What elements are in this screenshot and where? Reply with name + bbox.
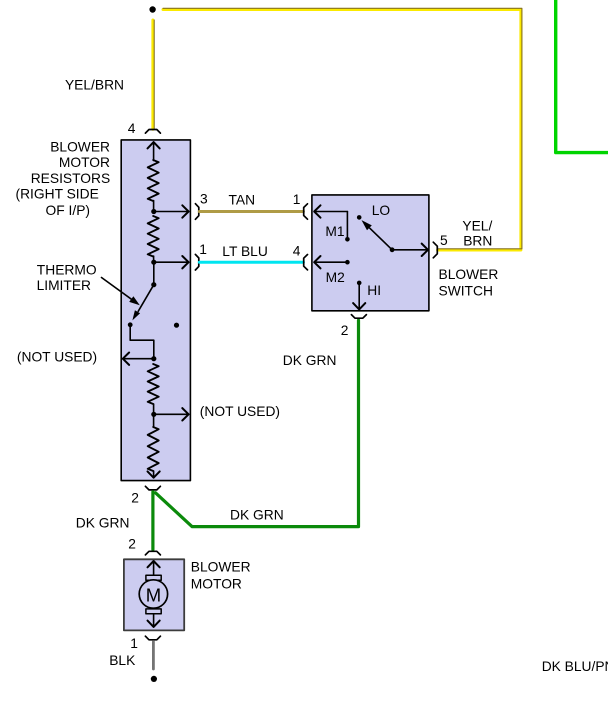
connector at switch pin 5 (433, 242, 437, 258)
svg-text:RESISTORS: RESISTORS (31, 171, 110, 186)
wire GRN (top right corner) (556, 0, 608, 153)
svg-text:4: 4 (128, 121, 136, 136)
wire TAN (199, 210, 303, 213)
svg-text:YEL/BRN: YEL/BRN (65, 78, 124, 93)
switch pin 4 arrow (M2 feed) (314, 261, 347, 263)
svg-text:LIMITER: LIMITER (37, 278, 91, 293)
LO contact dot (357, 215, 362, 220)
connector at motor pin 2 (145, 551, 160, 555)
svg-text:DK BLU/PNK: DK BLU/PNK (542, 659, 608, 674)
connector at resistor pin 2 (145, 486, 160, 490)
motor top terminal (brush) (146, 575, 161, 580)
wire inside block from pin 1 tap down to thermo limiter (153, 262, 155, 285)
svg-text:DK GRN: DK GRN (76, 516, 130, 531)
M2 contact dot (345, 260, 350, 265)
svg-text:4: 4 (293, 244, 301, 259)
pin 3 arrow out of block (154, 211, 189, 213)
wire LT BLU (199, 261, 303, 264)
connector at resistor pin 3 (195, 204, 198, 220)
svg-text:YEL/: YEL/ (462, 219, 492, 234)
switch common dot (390, 247, 395, 252)
motor M1 symbol: top arrow (153, 561, 155, 575)
svg-text:MOTOR: MOTOR (191, 577, 242, 592)
connector at switch pin 2 (351, 315, 366, 319)
connector at switch pin 4 (304, 255, 308, 270)
connector at switch pin 1 (304, 204, 308, 219)
svg-text:BLOWER: BLOWER (439, 267, 499, 282)
svg-text:(RIGHT SIDE: (RIGHT SIDE (15, 187, 98, 202)
svg-text:SWITCH: SWITCH (439, 284, 493, 299)
resistor R2 (148, 216, 159, 257)
thermo limiter junction dot (top) (151, 282, 156, 287)
motor bottom arrow (153, 614, 155, 627)
M1 contact dot (345, 237, 350, 242)
wire DK GRN from resistor pin 2 to blower switch pin 2 (156, 320, 359, 526)
HI contact dot (357, 281, 362, 286)
svg-text:2: 2 (341, 323, 349, 338)
blower motor resistor block (121, 140, 190, 481)
svg-text:OF I/P): OF I/P) (46, 203, 90, 218)
wire BLK stub to ground splice (152, 642, 155, 669)
wire YEL/BRN from splice to blower switch pin 5 (163, 10, 521, 251)
pin 2 arrow down out of block (153, 471, 155, 478)
blower switch block (312, 195, 429, 311)
connector at resistor pin 4 (145, 130, 160, 134)
svg-text:LT BLU: LT BLU (222, 244, 267, 259)
svg-text:(NOT USED): (NOT USED) (200, 404, 280, 419)
resistor R4 (148, 427, 159, 471)
svg-text:BLOWER: BLOWER (191, 560, 251, 575)
svg-text:M: M (146, 584, 161, 605)
svg-text:LO: LO (372, 203, 391, 218)
thermo limiter callout arrow (102, 278, 132, 300)
switch pin 1 arrow (M1 feed) (314, 211, 347, 213)
svg-text:1: 1 (130, 636, 138, 651)
junction dot (not-used right tap) (151, 412, 156, 417)
connector at motor pin 1 (145, 636, 160, 640)
connector at resistor pin 1 (195, 254, 198, 270)
svg-text:BRN: BRN (463, 234, 492, 249)
svg-text:M2: M2 (326, 270, 345, 285)
not-used right arrow (154, 413, 189, 415)
wire DK GRN from resistor pin 2 down to motor pin 2 (151, 492, 154, 550)
switch pin 2 arrow down (358, 283, 360, 309)
blower motor block (124, 559, 184, 630)
svg-text:BLOWER: BLOWER (50, 140, 110, 155)
label BLOWER MOTOR RESISTORS (RIGHT SIDE OF I/P) (15, 140, 110, 219)
svg-text:TAN: TAN (229, 192, 256, 207)
pin 4 arrow into resistor block (153, 142, 155, 160)
motor armature circle (139, 580, 167, 608)
svg-text:MOTOR: MOTOR (59, 155, 110, 170)
stray junction dot inside block (174, 323, 179, 328)
svg-text:(NOT USED): (NOT USED) (17, 350, 97, 365)
svg-text:DK GRN: DK GRN (283, 353, 337, 368)
switch wiper arm (370, 228, 392, 250)
svg-text:BLK: BLK (109, 653, 136, 668)
wire YEL/BRN from splice down to resistor pin 4 (151, 20, 154, 129)
resistor R3 (148, 364, 159, 404)
switch pin 5 arrow (392, 249, 428, 251)
svg-text:3: 3 (200, 191, 208, 206)
junction dot (pin 1 tap) (151, 260, 156, 265)
svg-text:DK GRN: DK GRN (230, 508, 284, 523)
svg-text:1: 1 (199, 242, 207, 257)
node A (splice dot, top) (149, 6, 155, 12)
junction dot (pin 3 tap) (151, 209, 156, 214)
not-used left arrow (123, 358, 154, 360)
motor bottom terminal (brush) (146, 609, 161, 614)
node B (ground splice dot) (151, 676, 157, 682)
junction dot (not-used left tap) (151, 356, 156, 361)
svg-text:1: 1 (293, 192, 301, 207)
svg-text:5: 5 (440, 233, 448, 248)
thermo limiter symbol (138, 285, 154, 312)
svg-text:THERMO: THERMO (37, 262, 97, 277)
pin 1 arrow out of block (154, 261, 189, 263)
resistor R1 (148, 160, 159, 201)
svg-text:HI: HI (367, 283, 381, 298)
svg-text:M1: M1 (325, 224, 344, 239)
svg-text:2: 2 (131, 491, 139, 506)
svg-text:2: 2 (128, 537, 136, 552)
